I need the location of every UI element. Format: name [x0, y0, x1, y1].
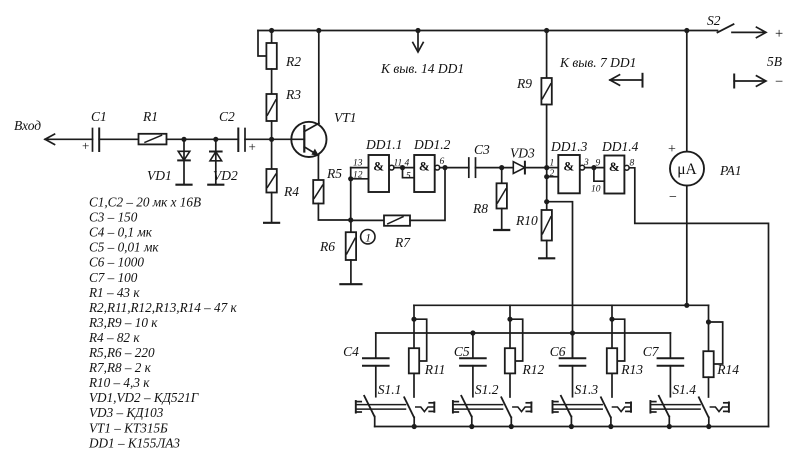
resistor R7 [384, 215, 410, 225]
pin label 9 [596, 159, 601, 169]
wire R14 to switch contact [708, 377, 710, 397]
wire R13 to switch contact [611, 373, 613, 397]
pin label 2 [550, 169, 555, 179]
node R14 tap junction [706, 319, 711, 324]
wire capacitor bank rail [376, 332, 671, 334]
resistor R11 [409, 348, 419, 373]
node C6 rail junction [570, 330, 575, 335]
label C7 [643, 344, 660, 359]
switch S2 [718, 24, 734, 32]
node R11 tap junction [411, 317, 416, 322]
svg-text:DD1.4: DD1.4 [601, 139, 639, 154]
svg-text:R3,R9 – 10 к: R3,R9 – 10 к [88, 315, 158, 330]
wire C5 to switch contact [472, 366, 474, 397]
label R14 [716, 362, 739, 377]
svg-text:К выв. 14 DD1: К выв. 14 DD1 [380, 61, 464, 76]
svg-text:VT1: VT1 [334, 110, 357, 125]
power arrow to pin 14 DD1 [413, 31, 423, 53]
test point 1 [361, 230, 375, 245]
diode VD2 [210, 139, 222, 184]
svg-text:3: 3 [583, 158, 589, 168]
svg-text:−: − [775, 74, 783, 90]
svg-text:1: 1 [365, 233, 371, 245]
wire rail to C5 [472, 333, 474, 358]
resistor R1 [139, 134, 167, 145]
diode VD1 [178, 139, 190, 184]
wire DD1.4 output to switch common [629, 168, 768, 427]
svg-text:S2: S2 [707, 13, 721, 28]
wire measure node to capacitor bank [547, 202, 573, 358]
wire rail to R13 [611, 305, 613, 348]
svg-text:R13: R13 [620, 362, 643, 377]
label PA1 [719, 163, 742, 178]
svg-text:10: 10 [591, 185, 601, 195]
svg-text:R10 – 4,3 к: R10 – 4,3 к [88, 375, 150, 390]
pin label 10 [591, 185, 601, 195]
svg-text:R7: R7 [394, 235, 411, 250]
wire rail to R9 [546, 31, 548, 79]
svg-text:9: 9 [596, 159, 601, 169]
svg-text:−: − [669, 190, 677, 205]
wire R2 to R3 [271, 69, 273, 94]
svg-text:R12: R12 [522, 362, 545, 377]
pin label 6 [440, 157, 445, 167]
resistor R13 [607, 348, 617, 373]
label К выв. 7 DD1 [559, 55, 636, 70]
wire DD1.2 output to C3 [440, 167, 469, 169]
diode VD3 [513, 162, 546, 174]
wire VT1 emitter [317, 155, 319, 180]
svg-text:C6 – 1000: C6 – 1000 [89, 255, 144, 270]
transistor VT1 [291, 122, 326, 157]
svg-text:R2: R2 [285, 54, 301, 69]
pin label 4 [405, 159, 410, 169]
label C2 [219, 109, 235, 124]
resistor R4 [266, 139, 276, 192]
wire DD1.1 output to DD1.2 pin4 [394, 167, 414, 169]
svg-text:VT1 – КТ315Б: VT1 – КТ315Б [89, 420, 168, 435]
svg-text:C2: C2 [219, 109, 235, 124]
wire VD1 node to VD2 node [184, 138, 216, 140]
label S1.1 [378, 382, 402, 397]
label R3 [285, 87, 301, 102]
svg-text:1: 1 [550, 159, 555, 169]
svg-text:VD3 – КД103: VD3 – КД103 [89, 405, 164, 420]
gate DD1.4 [604, 156, 629, 194]
node pin9/10 junction [591, 165, 596, 170]
svg-text:VD1,VD2 – КД521Г: VD1,VD2 – КД521Г [89, 390, 199, 405]
pin label 1 [550, 159, 555, 169]
svg-text:μA: μA [677, 161, 697, 178]
wire C3 to VD3 [476, 167, 514, 169]
parts list [88, 195, 238, 450]
svg-text:DD1.1: DD1.1 [365, 137, 402, 152]
svg-text:R14: R14 [716, 362, 739, 377]
node pin4/5 junction [400, 165, 405, 170]
svg-text:R11: R11 [424, 362, 446, 377]
svg-text:+: + [249, 139, 256, 154]
terminal bar arrow minus [734, 75, 766, 88]
svg-text:&: & [563, 159, 574, 174]
svg-text:S1.1: S1.1 [378, 382, 402, 397]
wire R10 to ground [546, 241, 548, 259]
svg-text:DD1 – К155ЛА3: DD1 – К155ЛА3 [88, 435, 180, 450]
svg-text:&: & [609, 159, 620, 174]
node C5 rail junction [470, 330, 475, 335]
svg-text:C3: C3 [474, 142, 490, 157]
label PA1 minus [669, 190, 677, 205]
label S1.3 [575, 382, 599, 397]
svg-text:&: & [373, 159, 384, 174]
label C4 [343, 344, 359, 359]
power arrow to pin 7 DD1 [610, 74, 643, 87]
svg-text:+: + [668, 142, 676, 157]
svg-text:R1: R1 [142, 109, 158, 124]
ground VD2 [208, 184, 223, 186]
wire rail to R12 [509, 305, 511, 348]
label plus supply [775, 26, 783, 42]
svg-text:R6: R6 [319, 239, 335, 254]
label C3 [474, 142, 490, 157]
wire R7 to DD1.2 output [410, 168, 445, 221]
label VD1 [147, 168, 172, 183]
switch S1.1 [356, 396, 435, 429]
wire R12 to switch contact [509, 373, 511, 397]
capacitor C1 [93, 129, 100, 152]
wire rail to R11 [413, 305, 415, 348]
resistor R9 [541, 78, 551, 105]
capacitor C3 [469, 158, 476, 177]
resistor R14 [703, 351, 713, 377]
pin label 5 [406, 172, 411, 182]
resistor R2 [266, 31, 276, 70]
switch S1.2 [453, 396, 532, 429]
ground R8 [494, 229, 509, 231]
label C1 plus [82, 138, 89, 153]
wire VT1 collector [318, 31, 320, 124]
label R4 [283, 184, 299, 199]
input terminal arrow [45, 134, 93, 144]
label R8 [472, 201, 488, 216]
wire node A to DD1.1 inputs [350, 168, 352, 220]
capacitor C6 [560, 358, 586, 366]
svg-text:PA1: PA1 [719, 163, 742, 178]
svg-text:Вход: Вход [14, 118, 41, 133]
svg-text:5В: 5В [767, 54, 782, 69]
wire C1 to R1 [99, 138, 138, 140]
node junction top rail / R2 [269, 28, 274, 33]
svg-text:R5,R6 – 220: R5,R6 – 220 [88, 345, 155, 360]
svg-text:C5: C5 [454, 344, 470, 359]
label DD1.3 [550, 139, 588, 154]
capacitor C2 [238, 129, 245, 152]
node base junction [269, 137, 274, 142]
wire top supply rail [258, 30, 718, 32]
svg-text:2: 2 [550, 169, 555, 179]
svg-text:R2,R11,R12,R13,R14 – 47 к: R2,R11,R12,R13,R14 – 47 к [88, 300, 238, 315]
label R10 [515, 213, 538, 228]
svg-text:R4: R4 [283, 184, 299, 199]
label R9 [516, 76, 532, 91]
pin label 13 [353, 159, 363, 169]
svg-text:C5 – 0,01 мк: C5 – 0,01 мк [89, 240, 159, 255]
svg-text:DD1.2: DD1.2 [413, 137, 451, 152]
svg-text:C1,C2 – 20 мк x 16В: C1,C2 – 20 мк x 16В [89, 195, 201, 210]
node R13 tap junction [609, 317, 614, 322]
wire R11 trimmer tap [414, 319, 427, 361]
svg-text:R10: R10 [515, 213, 538, 228]
pin label 11 [394, 159, 403, 169]
svg-text:К выв. 7 DD1: К выв. 7 DD1 [559, 55, 636, 70]
svg-text:C4 – 0,1 мк: C4 – 0,1 мк [89, 225, 153, 240]
wire pin 1 [547, 167, 559, 169]
wire switch common rail [375, 426, 769, 428]
wire R4 to ground [271, 193, 273, 223]
wire R14 trimmer tap [709, 322, 723, 364]
gate DD1.3 [558, 155, 584, 193]
label DD1.2 [413, 137, 451, 152]
ground R6 [340, 283, 361, 285]
label R11 [424, 362, 446, 377]
svg-text:DD1.3: DD1.3 [550, 139, 588, 154]
node PA1 rail junction [684, 28, 689, 33]
pin label 3 [583, 158, 589, 168]
svg-text:VD2: VD2 [213, 168, 238, 183]
node collector junction [316, 28, 321, 33]
label VT1 [334, 110, 357, 125]
svg-text:R1 – 43 к: R1 – 43 к [88, 285, 140, 300]
svg-text:4: 4 [405, 159, 410, 169]
label К выв. 14 DD1 [380, 61, 464, 76]
svg-text:C3 – 150: C3 – 150 [89, 210, 138, 225]
svg-text:C1: C1 [91, 109, 107, 124]
wire rail to PA1 [686, 31, 688, 152]
svg-text:+: + [82, 138, 89, 153]
label R5 [326, 166, 342, 181]
label C1 [91, 109, 107, 124]
svg-text:&: & [419, 159, 430, 174]
gate DD1.2 [414, 155, 439, 192]
label R12 [522, 362, 545, 377]
gate DD1.1 [369, 155, 395, 192]
svg-text:+: + [775, 26, 783, 42]
ground VD1 [177, 184, 192, 186]
resistor R3 [266, 94, 276, 121]
node pin12 junction [348, 176, 353, 181]
node PA1 bank junction [684, 303, 689, 308]
resistor R10 [542, 202, 552, 241]
wire C2 to VT1 base [245, 138, 304, 140]
svg-text:5: 5 [406, 172, 411, 182]
node VD3/R9/pin1 junction [544, 165, 549, 170]
node VD1 junction [181, 137, 186, 142]
wire R12 trimmer tap [510, 319, 523, 361]
svg-text:R8: R8 [472, 201, 488, 216]
svg-text:S1.4: S1.4 [672, 382, 696, 397]
label S1.2 [475, 382, 499, 397]
svg-text:R3: R3 [285, 87, 301, 102]
capacitor C7 [658, 358, 684, 366]
svg-text:S1.3: S1.3 [575, 382, 599, 397]
label DD1.4 [601, 139, 639, 154]
svg-text:C7: C7 [643, 344, 660, 359]
wire R13 trimmer tap [612, 319, 625, 361]
wire R9 to DD1.3 input [546, 105, 548, 168]
label R7 [394, 235, 411, 250]
wire input node down to R10 [546, 168, 548, 202]
wire pin 13 [351, 167, 369, 169]
pin label 12 [353, 171, 363, 181]
node A emitter/R6/R7 [348, 217, 353, 222]
pin label 8 [630, 159, 635, 169]
switch S1.4 [650, 396, 729, 429]
ground R4 [264, 222, 279, 224]
resistor R6 [346, 220, 356, 260]
wire node A to R7 [351, 219, 384, 221]
ground R10 [539, 257, 554, 259]
wire R3 to base node [271, 121, 273, 139]
svg-text:12: 12 [353, 171, 363, 181]
wire rail to C6 [572, 333, 574, 358]
node pin14 arrow junction [415, 28, 420, 33]
svg-text:C4: C4 [343, 344, 359, 359]
resistor R8 [497, 168, 507, 209]
wire R1 to VD1 node [167, 138, 185, 140]
resistor R5 [313, 180, 323, 204]
node R8 junction [499, 165, 504, 170]
wire pin 12 [351, 178, 369, 180]
svg-text:VD3: VD3 [510, 146, 535, 161]
label C5 [454, 344, 470, 359]
label VD3 [510, 146, 535, 161]
terminal arrow plus [732, 27, 766, 37]
wire pin 10 stub [594, 168, 605, 182]
capacitor C5 [460, 358, 486, 366]
node VD2 junction [213, 137, 218, 142]
node R12 tap junction [507, 317, 512, 322]
wire C4 to switch contact [375, 366, 377, 397]
svg-text:13: 13 [353, 159, 363, 169]
label R1 [142, 109, 158, 124]
wire rail to R14 [708, 305, 710, 351]
wire VD2 node to C2 [216, 138, 239, 140]
label R6 [319, 239, 335, 254]
svg-text:R4 – 82 к: R4 – 82 к [88, 330, 140, 345]
svg-text:C6: C6 [550, 344, 566, 359]
wire resistor bank rail [414, 304, 709, 306]
node pin2 junction [544, 174, 549, 179]
wire C7 to switch contact [669, 366, 671, 397]
wire rail to C4 [375, 333, 377, 358]
label Вход [14, 118, 41, 133]
node R10 junction [544, 199, 549, 204]
wire pin 5 stub [403, 168, 415, 178]
wire PA1 to bottom rail [686, 186, 688, 306]
svg-text:R7,R8 – 2 к: R7,R8 – 2 к [88, 360, 152, 375]
svg-text:S1.2: S1.2 [475, 382, 499, 397]
label R13 [620, 362, 643, 377]
label minus supply [775, 74, 783, 90]
svg-text:R5: R5 [326, 166, 342, 181]
node R9 rail junction [544, 28, 549, 33]
label C2 plus [249, 139, 256, 154]
node R7 feedback junction [442, 165, 447, 170]
wire R5 to node A [318, 204, 350, 221]
resistor R12 [505, 348, 515, 373]
svg-text:C7 – 100: C7 – 100 [89, 270, 138, 285]
label DD1.1 [365, 137, 402, 152]
switch S1.3 [553, 396, 632, 429]
meter PA1 [670, 152, 704, 186]
wire R11 to switch contact [413, 373, 415, 397]
wire R6 to ground [350, 260, 352, 284]
wire R2 trimmer tap [258, 31, 267, 57]
wire C6 to switch contact [572, 366, 574, 397]
capacitor C4 [363, 358, 389, 366]
label S1.4 [672, 382, 696, 397]
wire R8 to ground [501, 209, 503, 230]
label 5V [767, 54, 782, 69]
svg-text:VD1: VD1 [147, 168, 172, 183]
wire DD1.3 output to DD1.4 pin9 [585, 167, 605, 169]
label C6 [550, 344, 566, 359]
label PA1 plus [668, 142, 676, 157]
label R2 [285, 54, 301, 69]
label VD2 [213, 168, 238, 183]
wire pin 2 stub [547, 176, 559, 178]
label S2 [707, 13, 721, 28]
wire rail to C7 [669, 333, 671, 358]
svg-text:R9: R9 [516, 76, 532, 91]
